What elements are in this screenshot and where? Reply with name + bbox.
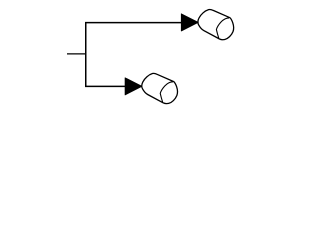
speaker cylinder bottom [142, 73, 178, 103]
input stub wire [67, 53, 86, 55]
speaker cylinder top [198, 9, 234, 39]
top branch wire [85, 22, 182, 24]
vertical bus wire [85, 23, 87, 87]
amplifier triangle top [181, 14, 198, 31]
bottom branch wire [85, 85, 125, 87]
amplifier triangle bottom [125, 78, 142, 95]
